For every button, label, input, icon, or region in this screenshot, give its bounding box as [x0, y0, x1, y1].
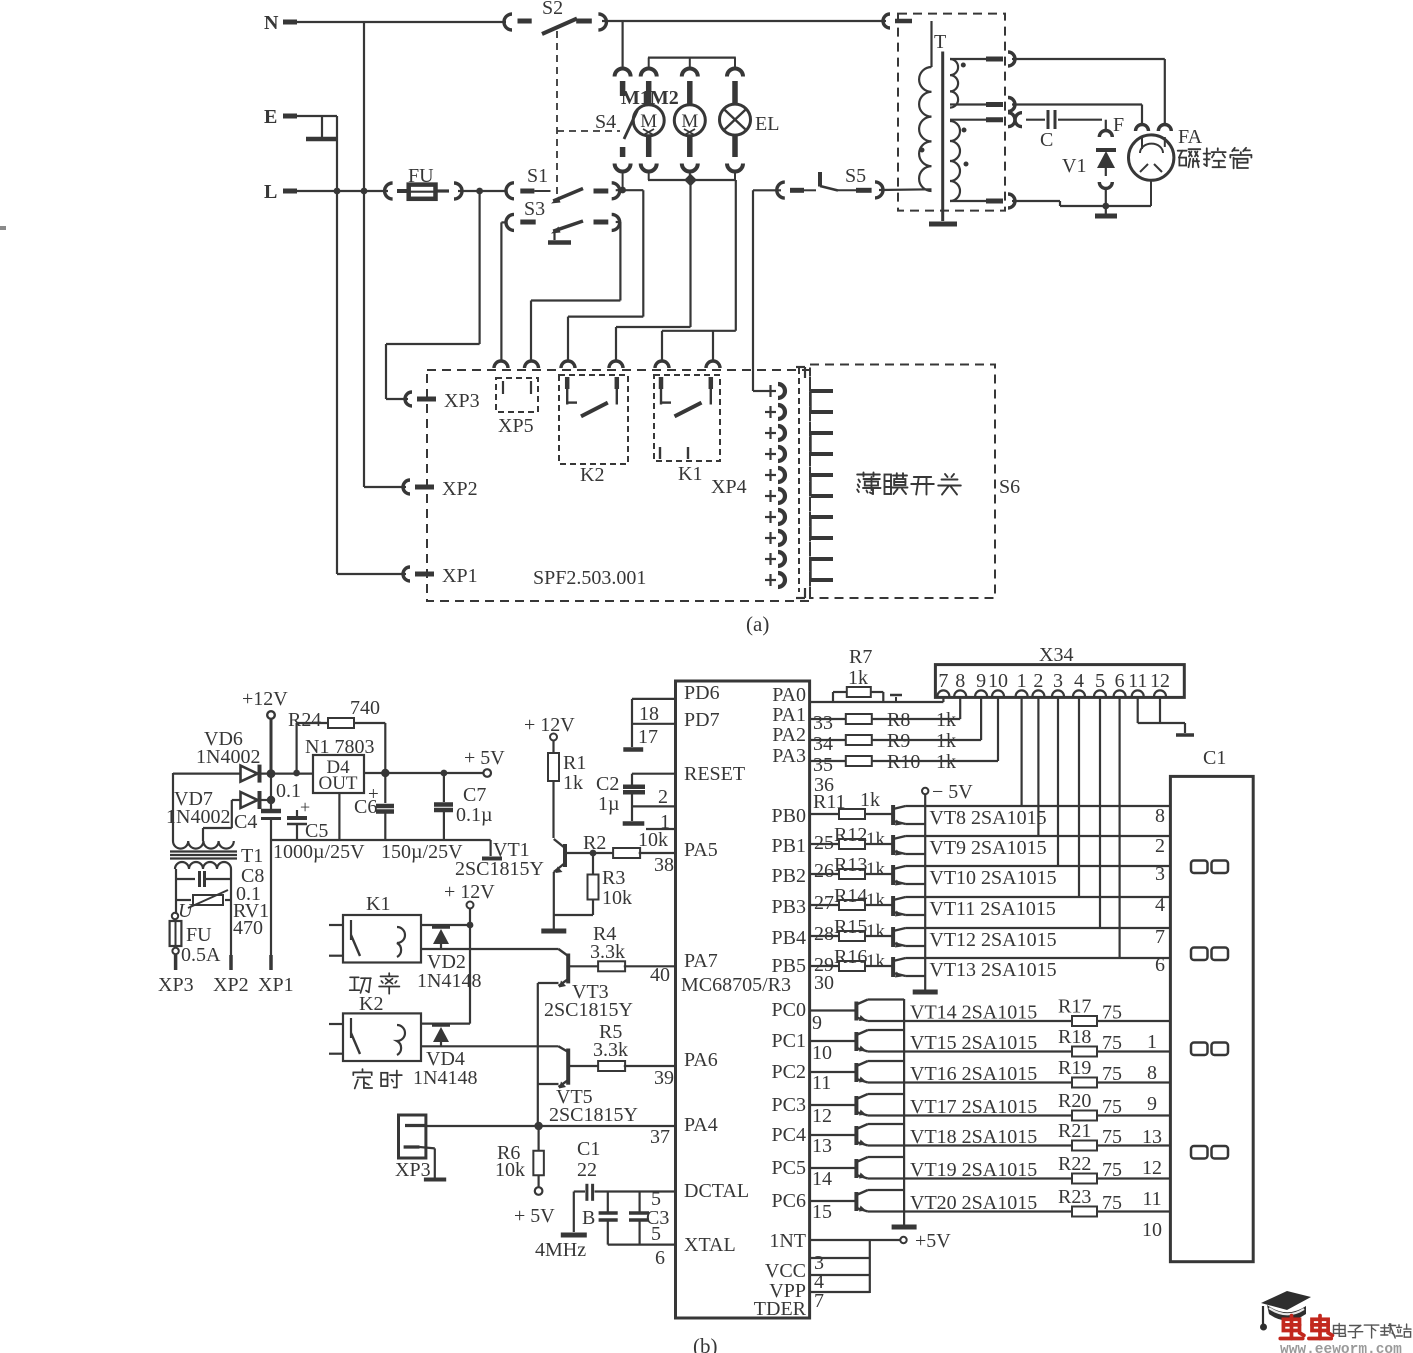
svg-text:18: 18	[639, 703, 659, 725]
svg-text:11: 11	[1128, 670, 1147, 692]
svg-text:11: 11	[1142, 1188, 1161, 1210]
svg-text:EL: EL	[755, 113, 779, 135]
svg-text:+5V: +5V	[915, 1230, 951, 1252]
svg-text:12: 12	[1150, 670, 1170, 692]
svg-text:T: T	[934, 31, 946, 53]
svg-text:33: 33	[813, 712, 833, 734]
svg-text:R16: R16	[834, 946, 867, 968]
svg-text:X34: X34	[1039, 644, 1073, 666]
svg-text:R23: R23	[1058, 1186, 1091, 1208]
svg-text:PC3: PC3	[772, 1094, 806, 1116]
svg-text:27: 27	[814, 892, 834, 914]
svg-text:M: M	[681, 111, 698, 132]
svg-text:VT14 2SA1015: VT14 2SA1015	[910, 1002, 1037, 1024]
svg-text:C6: C6	[354, 796, 377, 818]
svg-text:75: 75	[1102, 1096, 1122, 1118]
svg-text:34: 34	[813, 733, 833, 755]
svg-text:35: 35	[813, 754, 833, 776]
svg-text:(a): (a)	[746, 612, 769, 636]
svg-text:4MHz: 4MHz	[535, 1239, 586, 1261]
svg-text:6: 6	[655, 1247, 665, 1269]
svg-text:1k: 1k	[860, 789, 880, 811]
svg-text:VT13 2SA1015: VT13 2SA1015	[929, 959, 1056, 981]
svg-text:13: 13	[812, 1135, 832, 1157]
svg-text:3: 3	[1155, 863, 1165, 885]
svg-text:3: 3	[1053, 670, 1063, 692]
svg-text:2SC1815Y: 2SC1815Y	[544, 999, 633, 1021]
svg-text:PA4: PA4	[684, 1114, 718, 1136]
svg-text:0.1: 0.1	[276, 780, 301, 802]
svg-text:DCTAL: DCTAL	[684, 1180, 749, 1202]
svg-text:8: 8	[955, 670, 965, 692]
svg-text:S6: S6	[999, 476, 1020, 498]
svg-text:1N4002: 1N4002	[196, 746, 260, 768]
svg-text:R21: R21	[1058, 1120, 1091, 1142]
svg-text:3.3k: 3.3k	[593, 1039, 628, 1061]
svg-text:VT18 2SA1015: VT18 2SA1015	[910, 1126, 1037, 1148]
svg-text:VT19 2SA1015: VT19 2SA1015	[910, 1159, 1037, 1181]
svg-text:1k: 1k	[563, 772, 583, 794]
svg-text:6: 6	[1155, 954, 1165, 976]
svg-text:75: 75	[1102, 1063, 1122, 1085]
svg-text:1k: 1k	[848, 667, 868, 689]
svg-text:10: 10	[1142, 1219, 1162, 1241]
svg-text:1k: 1k	[866, 890, 886, 911]
svg-text:PA7: PA7	[684, 950, 718, 972]
svg-text:1N4002: 1N4002	[166, 806, 230, 828]
svg-text:VT16 2SA1015: VT16 2SA1015	[910, 1063, 1037, 1085]
svg-text:37: 37	[650, 1126, 670, 1148]
svg-text:K2: K2	[359, 993, 383, 1015]
svg-text:9: 9	[1147, 1093, 1157, 1115]
svg-text:1NT: 1NT	[769, 1230, 806, 1252]
svg-text:+ 12V: + 12V	[444, 881, 495, 903]
svg-text:PA5: PA5	[684, 839, 718, 861]
svg-text:1k: 1k	[936, 709, 956, 731]
svg-text:4: 4	[1155, 894, 1165, 916]
svg-text:− 5V: − 5V	[932, 781, 973, 803]
svg-text:C1: C1	[1203, 747, 1226, 769]
svg-text:C7: C7	[463, 784, 486, 806]
svg-text:PC2: PC2	[772, 1061, 806, 1083]
svg-text:C4: C4	[234, 811, 257, 833]
svg-text:FA: FA	[1178, 126, 1203, 148]
svg-text:+ 5V: + 5V	[514, 1205, 555, 1227]
svg-text:R10: R10	[887, 751, 920, 773]
svg-text:2SC1815Y: 2SC1815Y	[455, 858, 544, 880]
svg-text:8: 8	[1147, 1062, 1157, 1084]
svg-text:9: 9	[812, 1012, 822, 1034]
svg-text:R17: R17	[1058, 996, 1091, 1018]
svg-text:PC6: PC6	[772, 1190, 806, 1212]
svg-text:VT20 2SA1015: VT20 2SA1015	[910, 1192, 1037, 1214]
svg-text:R8: R8	[887, 709, 910, 731]
svg-text:R1: R1	[563, 752, 586, 774]
svg-text:PB1: PB1	[772, 835, 806, 857]
svg-text:PB0: PB0	[772, 805, 806, 827]
svg-text:R24: R24	[288, 709, 321, 731]
svg-text:2: 2	[658, 786, 668, 808]
svg-text:17: 17	[638, 726, 658, 748]
svg-text:40: 40	[650, 964, 670, 986]
svg-text:26: 26	[814, 860, 834, 882]
svg-text:0.5A: 0.5A	[181, 944, 221, 966]
svg-text:PB2: PB2	[772, 865, 806, 887]
svg-text:R14: R14	[834, 885, 867, 907]
svg-text:22: 22	[577, 1159, 597, 1181]
svg-text:PB3: PB3	[772, 896, 806, 918]
svg-text:R18: R18	[1058, 1026, 1091, 1048]
svg-text:75: 75	[1102, 1192, 1122, 1214]
svg-text:13: 13	[1142, 1126, 1162, 1148]
svg-text:R7: R7	[849, 646, 872, 668]
svg-text:PD6: PD6	[684, 682, 720, 704]
svg-text:10: 10	[812, 1042, 832, 1064]
svg-text:TDER: TDER	[754, 1298, 807, 1320]
svg-text:2: 2	[1033, 670, 1043, 692]
svg-text:11: 11	[812, 1072, 831, 1094]
svg-text:10k: 10k	[602, 887, 632, 909]
svg-text:R2: R2	[583, 832, 606, 854]
svg-text:R12: R12	[834, 824, 867, 846]
svg-text:75: 75	[1102, 1002, 1122, 1024]
svg-text:VT11 2SA1015: VT11 2SA1015	[929, 898, 1055, 920]
svg-text:XP5: XP5	[498, 415, 534, 437]
svg-text:7: 7	[814, 1290, 824, 1312]
svg-text:(b): (b)	[693, 1334, 718, 1353]
svg-text:10k: 10k	[495, 1159, 525, 1181]
svg-text:28: 28	[814, 923, 834, 945]
svg-text:470: 470	[233, 917, 263, 939]
svg-text:FU: FU	[186, 924, 212, 946]
svg-text:XP4: XP4	[711, 476, 747, 498]
svg-text:M1M2: M1M2	[621, 87, 679, 109]
svg-text:S4: S4	[595, 111, 616, 133]
svg-text:N: N	[264, 12, 279, 34]
svg-text:7: 7	[1155, 926, 1165, 948]
svg-text:F: F	[1113, 114, 1124, 136]
svg-text:XP2: XP2	[213, 974, 249, 996]
svg-text:XP1: XP1	[442, 565, 478, 587]
svg-text:OUT: OUT	[318, 773, 357, 794]
svg-text:SPF2.503.001: SPF2.503.001	[533, 567, 646, 589]
svg-text:9: 9	[976, 670, 986, 692]
svg-text:R9: R9	[887, 730, 910, 752]
svg-text:1k: 1k	[866, 859, 886, 880]
svg-text:VT8 2SA1015: VT8 2SA1015	[929, 807, 1046, 829]
svg-text:5: 5	[651, 1223, 661, 1245]
svg-text:V1: V1	[1062, 155, 1086, 177]
svg-text:RESET: RESET	[684, 763, 745, 785]
svg-text:VT9 2SA1015: VT9 2SA1015	[929, 837, 1046, 859]
svg-text:5: 5	[651, 1188, 661, 1210]
svg-text:1k: 1k	[936, 730, 956, 752]
svg-text:C: C	[1040, 129, 1053, 151]
svg-text:T1: T1	[241, 845, 263, 867]
svg-text:740: 740	[350, 697, 380, 719]
svg-text:12: 12	[812, 1105, 832, 1127]
svg-text:C5: C5	[305, 820, 328, 842]
svg-text:L: L	[264, 181, 277, 203]
svg-text:K2: K2	[580, 464, 604, 486]
svg-text:S3: S3	[524, 198, 545, 220]
svg-text:XP3: XP3	[158, 974, 194, 996]
svg-text:1000µ/25V: 1000µ/25V	[273, 841, 365, 863]
svg-text:39: 39	[654, 1067, 674, 1089]
svg-text:PC0: PC0	[772, 999, 806, 1021]
svg-text:1k: 1k	[866, 921, 886, 942]
svg-text:75: 75	[1102, 1126, 1122, 1148]
svg-text:7: 7	[938, 670, 948, 692]
svg-text:PB4: PB4	[772, 927, 806, 949]
svg-text:+: +	[300, 797, 310, 817]
svg-text:38: 38	[654, 854, 674, 876]
svg-text:R15: R15	[834, 916, 867, 938]
svg-text:R22: R22	[1058, 1153, 1091, 1175]
svg-text:12: 12	[1142, 1157, 1162, 1179]
svg-text:8: 8	[1155, 805, 1165, 827]
svg-text:2SC1815Y: 2SC1815Y	[549, 1104, 638, 1126]
svg-text:R20: R20	[1058, 1090, 1091, 1112]
svg-text:B: B	[582, 1207, 595, 1229]
svg-text:R13: R13	[834, 854, 867, 876]
svg-text:1k: 1k	[866, 951, 886, 972]
svg-text:1: 1	[1017, 670, 1027, 692]
svg-text:PA3: PA3	[772, 745, 806, 767]
svg-text:PA1: PA1	[772, 704, 806, 726]
svg-text:XP1: XP1	[258, 974, 294, 996]
svg-text:VT17 2SA1015: VT17 2SA1015	[910, 1096, 1037, 1118]
svg-text:3.3k: 3.3k	[590, 941, 625, 963]
svg-text:PA2: PA2	[772, 724, 806, 746]
svg-text:1µ: 1µ	[598, 793, 620, 815]
svg-text:+ 5V: + 5V	[464, 747, 505, 769]
svg-text:5: 5	[1095, 670, 1105, 692]
svg-text:K1: K1	[678, 463, 702, 485]
svg-text:150µ/25V: 150µ/25V	[381, 841, 463, 863]
svg-text:FU: FU	[408, 165, 434, 187]
svg-text:1: 1	[1147, 1031, 1157, 1053]
svg-text:VT15 2SA1015: VT15 2SA1015	[910, 1032, 1037, 1054]
svg-text:PB5: PB5	[772, 955, 806, 977]
svg-text:www.eeworm.com: www.eeworm.com	[1280, 1342, 1402, 1353]
svg-text:R3: R3	[602, 867, 625, 889]
svg-text:PA6: PA6	[684, 1049, 718, 1071]
svg-text:R19: R19	[1058, 1057, 1091, 1079]
svg-text:C2: C2	[596, 773, 619, 795]
svg-text:1N4148: 1N4148	[417, 970, 481, 992]
svg-text:10k: 10k	[638, 829, 668, 851]
svg-text:VCC: VCC	[765, 1260, 806, 1282]
svg-text:1k: 1k	[936, 751, 956, 773]
svg-text:75: 75	[1102, 1032, 1122, 1054]
svg-text:XP3: XP3	[444, 390, 480, 412]
svg-text:PA0: PA0	[772, 684, 806, 706]
svg-text:30: 30	[814, 972, 834, 994]
svg-text:+ 12V: + 12V	[524, 714, 575, 736]
svg-text:4: 4	[1074, 670, 1084, 692]
svg-text:XTAL: XTAL	[684, 1234, 736, 1256]
svg-text:1N4148: 1N4148	[413, 1067, 477, 1089]
svg-text:0.1µ: 0.1µ	[456, 804, 493, 826]
svg-text:14: 14	[812, 1168, 832, 1190]
svg-text:1k: 1k	[866, 829, 886, 850]
svg-text:C1: C1	[577, 1138, 600, 1160]
svg-text:PC1: PC1	[772, 1030, 806, 1052]
svg-text:PC4: PC4	[772, 1124, 806, 1146]
svg-text:K1: K1	[366, 893, 390, 915]
svg-text:E: E	[264, 106, 277, 128]
svg-text:PC5: PC5	[772, 1157, 806, 1179]
svg-text:+12V: +12V	[242, 688, 288, 710]
svg-text:2: 2	[1155, 835, 1165, 857]
svg-text:XP2: XP2	[442, 478, 478, 500]
svg-text:S5: S5	[845, 165, 866, 187]
svg-text:10: 10	[988, 670, 1008, 692]
svg-text:6: 6	[1115, 670, 1125, 692]
svg-text:MC68705/R3: MC68705/R3	[681, 974, 791, 996]
svg-text:S2: S2	[542, 0, 563, 19]
svg-text:PD7: PD7	[684, 709, 720, 731]
svg-text:VT12 2SA1015: VT12 2SA1015	[929, 929, 1056, 951]
svg-text:VT10 2SA1015: VT10 2SA1015	[929, 867, 1056, 889]
svg-text:75: 75	[1102, 1159, 1122, 1181]
svg-text:S1: S1	[527, 165, 548, 187]
svg-text:15: 15	[812, 1201, 832, 1223]
svg-text:U: U	[178, 900, 194, 922]
svg-text:M: M	[640, 111, 657, 132]
